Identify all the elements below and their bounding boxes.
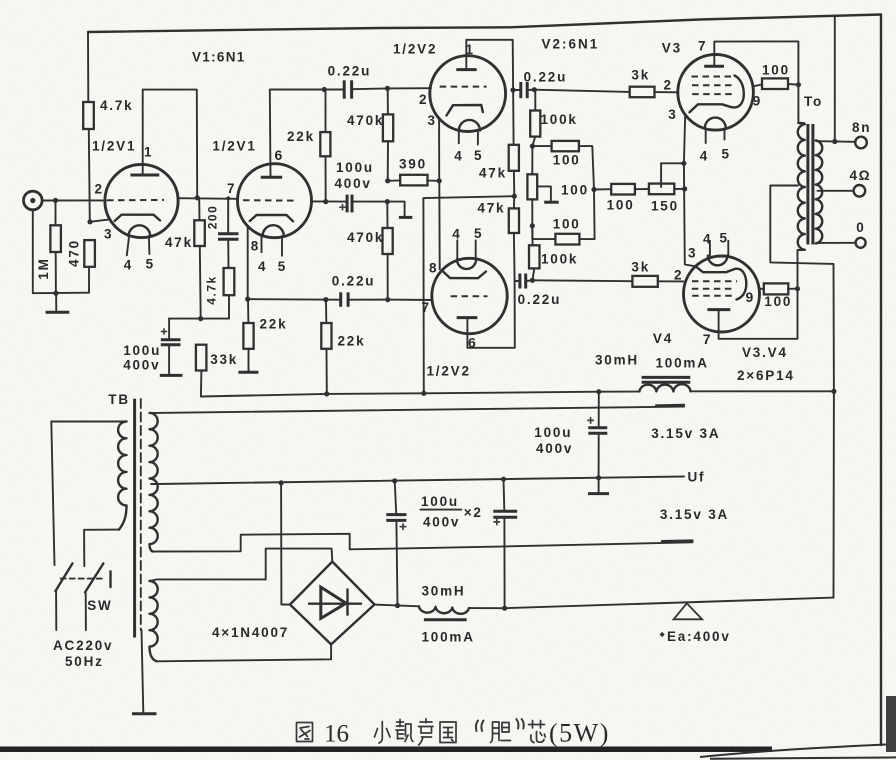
wire V4 plate to primary bottom <box>719 250 805 339</box>
node 150 right <box>682 186 687 191</box>
node V1b bias tap <box>385 199 390 204</box>
wire jack ground return <box>33 210 89 293</box>
wire 390 left lead <box>388 179 401 181</box>
triode V1b <box>238 164 312 256</box>
ground symbol input <box>46 293 70 312</box>
capacitor 0.22u upper right <box>513 82 534 98</box>
transformer To core <box>808 124 813 245</box>
heater stub pin4 V1b <box>261 236 263 252</box>
switch pole1 lower wire <box>55 591 57 630</box>
resistor 150 balance <box>649 184 685 195</box>
caption glyph sheng <box>419 719 434 745</box>
transformer TB core solid <box>133 399 136 638</box>
potentiometer 100 vertical <box>527 146 558 202</box>
caption glyph guo <box>440 722 456 743</box>
page bottom edge line right <box>710 757 896 758</box>
node primary top screen <box>796 82 801 87</box>
transformer TB secondary A coil <box>150 413 158 552</box>
page edge dark strip bottom right <box>886 696 896 752</box>
capacitor 100u 400v bypass <box>160 319 183 376</box>
heater dome V4 <box>708 256 727 266</box>
label Ea 400v <box>660 629 731 644</box>
heater line end overlay <box>656 404 684 407</box>
resistor 3k lower <box>632 276 683 287</box>
node ladder n1 <box>532 87 537 92</box>
wire right riser <box>833 391 835 597</box>
choke 30mH V4 rail <box>639 377 690 391</box>
node rail 22k <box>324 391 329 396</box>
wire n1 to 3k V3 <box>534 90 629 92</box>
node 390 left <box>385 178 390 183</box>
resistor 100k upper <box>530 90 540 146</box>
anode bar V1b <box>261 176 282 179</box>
wire V1b plate up to coupling <box>270 90 343 178</box>
node rail bias feed <box>421 391 426 396</box>
resistor 4.7k second <box>224 268 235 295</box>
wire secondary B bottom to bridge <box>157 644 331 661</box>
node feedback takeoff <box>832 139 837 144</box>
resistor 390 <box>400 175 427 186</box>
wire W2 to bridge AC top <box>266 549 333 580</box>
wire right border vertical <box>880 15 882 746</box>
wire cathode to 0.22u lower-left <box>248 298 340 301</box>
node ladder n3 <box>591 187 596 192</box>
wire balance wiper run <box>661 162 684 164</box>
wire jack to V1a grid <box>42 199 106 201</box>
triode V2a <box>430 56 506 145</box>
wire secondary A tap <box>151 483 159 485</box>
heater stub pin5 V4 <box>727 241 729 256</box>
capacitor 200 <box>218 198 239 268</box>
node ladder n2 <box>530 144 535 149</box>
resistor 47k upper <box>509 145 519 196</box>
bridge rectifier diamond <box>290 562 375 645</box>
heater stub pin4 V1a <box>127 236 129 255</box>
resistor 22k tail <box>321 300 331 394</box>
caption glyph dan <box>491 722 511 743</box>
node L3 cap2 <box>501 477 506 482</box>
pentode V3 <box>678 55 754 144</box>
anode bar V2a <box>456 68 476 71</box>
wire top rail <box>88 15 881 33</box>
ground symbol Uf <box>588 478 609 494</box>
heater dome V3 <box>705 118 726 129</box>
heater dome V1b <box>263 225 284 236</box>
transformer To secondary coil <box>816 141 823 244</box>
wire V3 cathode down <box>684 115 685 164</box>
heater stub pin5 V3 <box>724 128 726 139</box>
anode bar V1a <box>130 174 159 177</box>
resistor 470k grid leak V2a <box>383 88 393 180</box>
wire 1M bottom lead <box>55 252 57 293</box>
wire cathode node to tube V1a pin3 <box>90 219 110 222</box>
wire V3 plate to primary top <box>714 41 798 123</box>
heater stub pin4 V3 <box>705 128 707 143</box>
resistor 100 bottom horizontal <box>532 190 594 245</box>
resistor 100 screen V3 <box>762 78 788 89</box>
caption glyph jing <box>396 720 413 742</box>
node bias junction <box>198 316 203 321</box>
wire 470 bottom lead <box>88 267 90 293</box>
wire 1M top lead <box>55 200 57 225</box>
resistor 100 balance <box>594 184 649 195</box>
switch fixed contact <box>109 571 111 587</box>
capacitor 0.22u lower right <box>515 274 533 289</box>
wire 4.7k second bottom to bias node <box>201 295 229 318</box>
triode V2b <box>432 240 507 333</box>
transformer TB core dashed <box>140 399 142 630</box>
wire 4.7k top from rail corner <box>87 32 89 102</box>
node rail filter cap <box>596 389 601 394</box>
capacitor 0.22u lower-left <box>341 292 388 307</box>
wire 100 to primary node <box>788 83 798 86</box>
wire primary top to switch <box>51 422 126 566</box>
wire node to V2a <box>388 87 432 89</box>
terminal 0 <box>856 238 866 248</box>
resistor 47k lower <box>509 196 519 281</box>
anode lead V4 <box>718 310 720 332</box>
wire V4 grid feed to 3k <box>532 279 632 282</box>
wire bridge plus to choke <box>375 605 419 607</box>
wire V2a cathode down <box>438 118 440 181</box>
wire V1b grid row to 100u cap <box>312 200 347 202</box>
resistor 100k lower <box>529 226 540 280</box>
wire feedback to top rail <box>834 16 836 142</box>
wire bias tap to small ground <box>387 202 404 217</box>
transformer To primary coil <box>798 123 805 250</box>
node 47k mid <box>512 194 517 199</box>
input jack J1 <box>24 191 43 210</box>
wire V2a plate to box node <box>466 40 513 145</box>
grid dashes V1a <box>107 199 164 201</box>
terminal 8n <box>855 137 867 149</box>
potentiometer 150 wiper <box>660 163 662 187</box>
heater stub pin4 V2a <box>458 131 460 143</box>
wire 47k top lead <box>198 198 200 221</box>
node bridge cap1 <box>395 603 400 608</box>
wire 47k node to bias feed corner <box>423 196 514 393</box>
grid dashes V2b <box>451 295 488 297</box>
transformer TB primary coil <box>118 422 126 530</box>
grid dashes V2a <box>440 86 487 88</box>
wire pot bottom to n4 <box>531 199 533 225</box>
node 22k top <box>322 87 327 92</box>
node cathode V1b bottom <box>245 297 250 302</box>
anode bar V2b <box>457 316 478 319</box>
resistor 100 screen V4 <box>764 283 789 294</box>
node choke cap2 <box>502 606 507 611</box>
heater stub pin5 V1a <box>148 236 151 254</box>
terminal 4 ohm <box>854 185 866 197</box>
ground symbol TB <box>132 712 157 715</box>
pentode V4 <box>684 241 760 332</box>
power supply L3 Uf line <box>158 477 685 485</box>
heater stub pin4 V4 <box>709 241 711 256</box>
node 390 right / V2a cathode <box>437 178 442 183</box>
wire secondary B top to bridge <box>150 579 266 581</box>
node 0.22u upper left <box>510 87 515 92</box>
wire primary center tap <box>770 186 834 392</box>
capacitor 100u x2 first <box>386 481 406 606</box>
bias rail L1 <box>201 392 640 397</box>
node L3 ground <box>596 475 601 480</box>
wire bias node to bypass cap <box>169 318 201 320</box>
heater dome V1a <box>129 225 151 236</box>
wire balance node down to V4 pin3 <box>684 163 696 266</box>
node cathode V1a <box>87 219 92 224</box>
node ground junction <box>53 291 58 296</box>
cathode V2b inverted <box>443 271 487 278</box>
caption close quote <box>516 719 523 729</box>
resistor 1M <box>50 225 61 252</box>
caption glyph xiao <box>375 722 391 744</box>
wire V4 pin9 <box>759 288 764 290</box>
rail after choke <box>691 390 834 392</box>
power supply L4 heater line bottom staircase <box>153 534 693 552</box>
capacitor 100u 400v filter right <box>588 392 607 478</box>
heater stub pin5 V2a <box>477 131 479 145</box>
capacitor 0.22u first <box>344 80 387 98</box>
beam plate curve V4 <box>735 269 746 300</box>
switch SW pole1 blade <box>55 563 72 591</box>
transformer TB secondary B coil <box>150 581 158 661</box>
cathode V3 <box>690 104 732 112</box>
wire secondary top to 8n <box>816 141 855 142</box>
node rail output feed <box>831 389 836 394</box>
resistor 470 <box>84 240 95 267</box>
wire TB core ground <box>142 630 144 713</box>
grid dashes V4 <box>692 280 737 282</box>
cathode V2a <box>447 105 483 116</box>
heater stub pin5 V1b <box>281 236 283 256</box>
wire secondary A top <box>150 412 158 414</box>
node V4 grid feed <box>530 278 535 283</box>
cathode V4 inverted <box>696 266 736 272</box>
wire B+ return to right riser <box>505 598 834 609</box>
wire secondary bottom to 0 <box>816 242 856 245</box>
anode bar V4 <box>707 308 730 311</box>
wire V1a plate to coupling node <box>143 90 198 198</box>
node balance top <box>681 161 686 166</box>
anode bar V3 <box>704 65 724 68</box>
node 200 tap <box>226 196 230 200</box>
capacitor 100u 400v series <box>340 195 387 213</box>
heater dome V2b <box>457 259 476 269</box>
wire choke to Ea corner <box>469 607 505 609</box>
wire 33k bottom to rail <box>200 371 203 397</box>
caption figure 16 <box>297 719 546 745</box>
grid dashes V1b <box>243 199 296 201</box>
bottom page rule bar <box>0 747 772 753</box>
heater stub pin5 V2b <box>475 240 477 259</box>
wire V2b plate branch <box>467 281 514 348</box>
triode V1a <box>105 164 178 255</box>
resistor 470k second <box>383 202 393 300</box>
wire 100 to primary bottom node <box>788 288 797 290</box>
node 22k column mid <box>323 199 328 204</box>
power supply L2 heater line top <box>158 407 685 413</box>
node 22k column lower <box>323 297 328 302</box>
wire V1b cathode down <box>247 226 249 299</box>
switch link dashed <box>61 578 104 580</box>
heater dome V2a <box>459 120 480 131</box>
resistor 22k plate load V1b <box>320 90 330 202</box>
wire 390 right lead <box>428 180 440 182</box>
beam plate curve V3 <box>732 76 744 108</box>
wire 4.7k to cathode node <box>89 129 90 222</box>
grid dashes V3 <box>692 76 736 78</box>
caption glyph tu <box>297 723 313 742</box>
caption open quote <box>476 721 484 732</box>
wire 47k bottom to bias node <box>199 246 202 319</box>
node primary bottom screen <box>795 286 800 291</box>
switch pole2 lower wire <box>85 593 87 630</box>
resistor 4.7k cathode V1a <box>83 102 94 129</box>
resistor 100 top horizontal <box>532 141 594 190</box>
node V2a grid <box>385 86 390 91</box>
page curl line bottom right <box>700 744 896 757</box>
resistor 22k cathode V1b <box>238 299 258 372</box>
node grid V1a / 1M junction <box>53 198 58 203</box>
node V1a plate / V1b grid <box>195 195 200 200</box>
wire node down to V2b pin8 <box>438 181 440 269</box>
node ladder n4 <box>530 223 535 228</box>
node L3 bridge feed <box>279 480 284 485</box>
capacitor 100u x2 second <box>493 479 517 608</box>
wire secondary 4ohm tap <box>818 190 854 192</box>
node L3 cap1 <box>392 478 397 483</box>
resistor 33k <box>196 345 207 371</box>
wire V3 pin9 <box>753 85 763 87</box>
wire L3 to bridge left <box>281 483 290 605</box>
resistor 47k interstage <box>194 220 205 246</box>
wire primary bottom to switch <box>84 530 119 567</box>
cathode V1b <box>250 215 293 221</box>
heater stub pin4 V2b <box>456 240 458 259</box>
heater line2 end overlay <box>662 539 693 542</box>
bridge diode symbol <box>309 587 361 618</box>
choke 30mH bridge <box>419 606 469 620</box>
node V2b grid <box>385 297 390 302</box>
chassis triangle Ea <box>674 603 703 619</box>
resistor 3k upper <box>630 87 678 98</box>
wire node to V1b <box>178 197 237 200</box>
cathode V1a <box>115 215 160 221</box>
wire node to V2b pin7 <box>388 299 433 301</box>
switch SW pole2 blade <box>85 563 103 592</box>
anode lead V2b <box>466 318 468 334</box>
caption glyph xin <box>529 721 546 743</box>
ground symbol small <box>399 216 412 219</box>
